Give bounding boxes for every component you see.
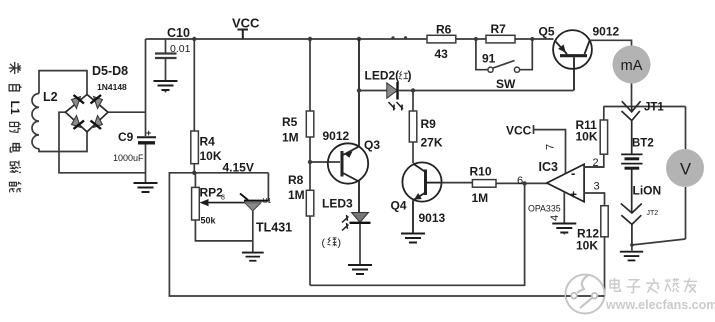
svg-text:JT2: JT2 (647, 210, 659, 217)
op-amp IC3 OPA335 (547, 164, 584, 201)
resistor R8 (306, 190, 314, 285)
node R4-bottom junction (192, 171, 196, 175)
wire bridge right vertex to vertical (108, 111, 146, 113)
svg-text:R6: R6 (436, 23, 452, 37)
svg-text:10K: 10K (576, 130, 598, 144)
svg-text:R10: R10 (470, 165, 492, 179)
svg-text:LED3: LED3 (322, 197, 353, 211)
svg-text:Q4: Q4 (391, 199, 407, 213)
ground (C10) (154, 81, 178, 90)
wire Q4 base to R10 (442, 182, 473, 184)
svg-text:R7: R7 (491, 22, 507, 36)
svg-text:1M: 1M (288, 188, 305, 202)
svg-text:LED2(: LED2( (365, 69, 400, 83)
svg-text:8: 8 (221, 195, 225, 202)
capacitor C9 electrolytic (137, 137, 156, 143)
pin 7 wire to VCC (534, 125, 566, 174)
svg-text:27K: 27K (421, 136, 443, 150)
svg-text:): ) (338, 237, 342, 249)
diode D8 bottom-right (91, 116, 103, 130)
ground (Q4) (401, 234, 425, 243)
LED3 green (342, 213, 371, 265)
svg-text:IC3: IC3 (539, 160, 559, 174)
power VCC (238, 30, 249, 40)
node B rail-R5 junction (308, 37, 312, 41)
svg-text:50k: 50k (201, 216, 217, 226)
svg-text:JT1: JT1 (644, 102, 664, 114)
svg-text:SW: SW (496, 77, 516, 91)
svg-text:(: ( (322, 237, 326, 249)
node pin6 junction (522, 181, 526, 185)
wire L2 top to bridge top (39, 71, 87, 95)
svg-text:L1: L1 (8, 101, 22, 115)
svg-text:Q5: Q5 (539, 25, 555, 39)
RP2 wiper arrow (200, 199, 246, 206)
svg-text:TL431: TL431 (256, 221, 292, 235)
watermark text 电子发烧友 (610, 278, 697, 293)
meter V (666, 149, 704, 187)
diode D5 top-left (72, 95, 85, 109)
svg-text:U1: U1 (263, 198, 272, 205)
wire L2 bottom to bridge bottom (39, 132, 87, 152)
wire top rail VCC (146, 38, 554, 40)
svg-text:Q3: Q3 (364, 138, 380, 152)
transistor Q5 9012 (553, 30, 592, 90)
svg-text:R8: R8 (288, 173, 304, 187)
battery BT2 (621, 154, 642, 168)
resistor R4 (191, 39, 199, 173)
node R5/R8/Q3-base junction (308, 160, 312, 164)
svg-text:): ) (408, 69, 412, 83)
connector JT2 (621, 170, 642, 246)
svg-text:1N4148: 1N4148 (97, 82, 127, 92)
wire LED2 to Q5 base (398, 90, 574, 92)
svg-text:C9: C9 (118, 130, 134, 144)
svg-text:R4: R4 (200, 135, 216, 149)
svg-text:RP2: RP2 (200, 186, 224, 200)
svg-text:OPA335: OPA335 (528, 204, 561, 214)
wire 4.15V box: top edge, left edge, bottom ground rail (169, 173, 604, 296)
transistor Q3 9012 (328, 39, 368, 213)
svg-text:9012: 9012 (593, 25, 620, 39)
resistor R11 (584, 107, 608, 168)
resistor R7 (486, 35, 515, 43)
wire V- diagonal to JT2 bottom (632, 239, 686, 245)
potentiometer RP2 (192, 173, 253, 241)
wire left vertical from rail to bridge/C9 (145, 39, 147, 136)
resistor R12 (601, 206, 608, 296)
ground (JT2/battery) (620, 252, 643, 261)
wire LED2 branch (359, 90, 387, 92)
svg-text:9012: 9012 (323, 129, 350, 143)
svg-text:6: 6 (517, 175, 523, 187)
capacitor C10 (155, 39, 177, 81)
node C rail-Q3emitter junction (357, 37, 361, 41)
LED2 red (387, 82, 403, 111)
pin 4 wire to ground (563, 192, 565, 223)
svg-text:+: + (570, 188, 577, 202)
watermark logo circle (566, 275, 605, 314)
svg-text:9013: 9013 (419, 211, 446, 225)
svg-text:0.01: 0.01 (170, 43, 191, 55)
ground (LED3) (348, 265, 372, 274)
svg-text:L2: L2 (43, 90, 58, 104)
wire Q3 base (310, 161, 340, 163)
transistor Q4 9013 (402, 162, 441, 232)
svg-text:V: V (680, 161, 691, 179)
pin 3 wire (584, 193, 604, 206)
svg-text:10K: 10K (576, 239, 598, 253)
svg-text:7: 7 (545, 144, 557, 150)
wire ground rail from bridge left (59, 112, 146, 173)
resistor R10 (472, 180, 547, 188)
svg-text:BT2: BT2 (632, 138, 654, 150)
diode D6 top-right (91, 95, 103, 109)
svg-text:3: 3 (594, 181, 600, 193)
inductor L2 (32, 94, 39, 149)
wire mA to JT1 node (604, 84, 686, 107)
diode D7 bottom-left (72, 116, 85, 130)
resistor R9 (409, 91, 417, 164)
wire feedback R8 to pin6 (310, 183, 525, 285)
svg-text:R9: R9 (421, 117, 437, 131)
wire V meter branch (685, 107, 687, 240)
svg-text:R5: R5 (282, 115, 298, 129)
svg-text:D5-D8: D5-D8 (92, 64, 128, 78)
node R9 junction (411, 88, 415, 92)
ground (IC3 pin4) (552, 224, 576, 233)
resistor R6 (427, 35, 456, 43)
node A rail-R4 junction (192, 37, 196, 41)
connector JT1 (622, 101, 641, 154)
svg-text:+: + (146, 128, 151, 138)
ground (bridge/C9) (134, 183, 158, 192)
svg-text:4: 4 (549, 215, 561, 221)
ground (TL431) (242, 253, 264, 261)
svg-text:10K: 10K (200, 149, 222, 163)
resistor R5 (306, 39, 314, 190)
svg-text:1M: 1M (472, 191, 489, 205)
svg-text:C10: C10 (167, 26, 190, 40)
wire C9 bottom to ground (145, 144, 147, 183)
svg-text:43: 43 (435, 47, 449, 61)
regulator U1 TL431 (267, 173, 269, 201)
svg-text:-: - (571, 166, 575, 181)
node dots on rail (391, 36, 394, 39)
meter mA (613, 46, 651, 84)
svg-text:LiON: LiON (633, 184, 662, 198)
svg-text:VCC: VCC (232, 16, 260, 31)
wire Q5 collector to mA (590, 40, 632, 45)
svg-text:1000uF: 1000uF (113, 153, 144, 163)
bridge rectifier D5-D8 (65, 95, 108, 132)
svg-text:mA: mA (621, 58, 643, 74)
svg-text:1M: 1M (282, 131, 299, 145)
pin 2 wire (584, 166, 604, 168)
svg-text:VCC: VCC (506, 124, 532, 138)
svg-text:91: 91 (482, 52, 496, 66)
switch SW parallel branch (476, 39, 532, 70)
label vertical 来自L1的电磁能 (8, 62, 22, 193)
svg-text:www.elecfans.com: www.elecfans.com (605, 298, 715, 312)
